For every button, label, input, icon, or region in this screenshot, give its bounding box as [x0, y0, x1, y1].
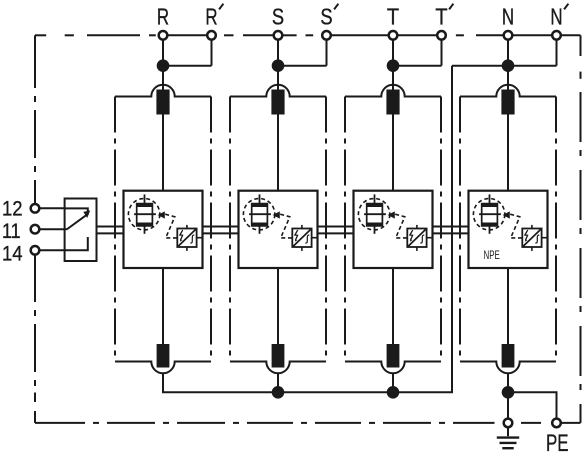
node T — [387, 59, 400, 72]
wire N terminal drop — [507, 40, 509, 66]
wire S terminal drop — [277, 40, 279, 66]
top thermal disconnector N — [501, 90, 514, 115]
varistor monitoring circle (dashed) module 4 — [473, 199, 504, 230]
label S´ — [320, 4, 338, 30]
varistor top lead module 1 — [144, 194, 146, 203]
wire NPE node to PE terminal — [508, 392, 557, 418]
svg-text:S: S — [272, 4, 284, 30]
module 3 housing left side (dash-dot) — [344, 97, 346, 362]
node common bus / module 2 — [272, 386, 285, 399]
integral mark module 4 — [535, 235, 539, 243]
indicator box bottom pin module 3 — [416, 247, 418, 251]
wire S´ to node S — [283, 65, 327, 67]
varistor top lead module 2 — [259, 194, 261, 203]
wire T´ to node T — [398, 65, 442, 67]
mechanical link (dashed) module 2 — [280, 214, 292, 238]
indicator box top pin module 1 — [186, 225, 188, 229]
varistor body module 4 — [482, 204, 498, 226]
label T´ — [435, 4, 453, 30]
indicator box top pin module 4 — [531, 225, 533, 229]
module 3 housing top rail — [345, 85, 441, 97]
module 2 housing bottom rail — [230, 362, 326, 374]
integral mark module 3 — [420, 235, 424, 243]
disconnector indicator box module 4 — [522, 229, 541, 248]
varistor bottom lead module 2 — [259, 226, 261, 234]
wire top disconnector to module box 3 — [392, 115, 394, 191]
wire N´ to node N — [513, 65, 557, 67]
indicator box right pin module 1 — [197, 237, 203, 239]
signal bus upper line — [97, 226, 469, 228]
wire R´ to node R — [168, 65, 212, 67]
wire terminal 12 to contact box — [39, 207, 64, 209]
contact 14 (NO) — [65, 237, 88, 250]
label N´ — [550, 4, 568, 30]
thermal trip arrow module 2 — [273, 211, 280, 218]
svg-text:R: R — [205, 4, 217, 30]
module 1 housing bottom rail — [115, 362, 211, 374]
module 2 housing top rail — [230, 85, 326, 97]
mechanical link (dashed) module 1 — [165, 214, 177, 238]
disconnector indicator box module 1 — [177, 229, 196, 248]
varistor mid line module 3 — [364, 213, 386, 215]
wire module 2 to common bus — [277, 373, 279, 392]
enclosure top border (dash-dot) y=35 — [35, 34, 581, 36]
svg-text:N: N — [502, 4, 514, 30]
disconnector indicator box module 2 — [292, 229, 311, 248]
svg-text:NPE: NPE — [484, 250, 501, 262]
terminal T´ — [437, 31, 446, 40]
node S — [272, 59, 285, 72]
module 4 housing right side (dash-dot) — [555, 97, 557, 362]
wire top disconnector to module box 2 — [277, 115, 279, 191]
indicator box right pin module 4 — [542, 237, 548, 239]
module 1 housing top rail — [115, 85, 211, 97]
module box 4 — [469, 191, 548, 268]
wire R´ terminal drop — [211, 40, 213, 66]
enclosure bottom border (dash-dot) y=422.9 — [35, 422, 581, 424]
enclosure right border (dash-dot) x=580.5 — [580, 35, 582, 423]
varistor monitoring circle (dashed) module 2 — [243, 199, 274, 230]
varistor body module 2 — [252, 204, 268, 226]
ground symbol — [497, 427, 519, 448]
thermal trip arrow module 4 — [503, 211, 510, 218]
wire module box 1 to bottom disconnector — [162, 268, 164, 345]
wire module box 4 to bottom disconnector — [507, 268, 509, 345]
wire node R to top disconnector — [162, 66, 164, 91]
module box 1 — [124, 191, 203, 268]
svg-text:T: T — [435, 4, 447, 30]
wire module box 3 to bottom disconnector — [392, 268, 394, 345]
mechanical link (dashed) module 4 — [510, 214, 522, 238]
wire top disconnector to module box 1 — [162, 115, 164, 191]
varistor mid line module 2 — [249, 213, 271, 215]
wire node T to top disconnector — [392, 66, 394, 91]
varistor body module 3 — [367, 204, 383, 226]
varistor monitoring circle (dashed) module 3 — [358, 199, 389, 230]
terminal 12 — [31, 204, 40, 213]
varistor bottom lead module 3 — [374, 226, 376, 234]
bottom thermal disconnector S — [272, 344, 285, 368]
svg-text:R: R — [157, 4, 169, 30]
node N — [502, 59, 515, 72]
varistor bottom lead module 1 — [144, 226, 146, 234]
varistor monitoring circle (dashed) module 1 — [128, 199, 159, 230]
module box 3 — [354, 191, 433, 268]
integral mark module 2 — [305, 235, 309, 243]
top thermal disconnector S — [271, 90, 284, 115]
module 2 housing right side (dash-dot) — [325, 97, 327, 362]
svg-text:S: S — [320, 4, 332, 30]
module 2 housing left side (dash-dot) — [229, 97, 231, 362]
wire T´ terminal drop — [441, 40, 443, 66]
svg-text:14: 14 — [2, 243, 23, 266]
varistor body module 1 — [137, 204, 153, 226]
wire T terminal drop — [392, 40, 394, 66]
wire module 3 to common bus — [392, 373, 394, 392]
disconnector indicator box module 3 — [407, 229, 426, 248]
wire node S to top disconnector — [277, 66, 279, 91]
switch lever (common 11) — [65, 210, 91, 229]
node NPE output — [502, 386, 515, 399]
wire S´ terminal drop — [326, 40, 328, 66]
earth terminal circle — [504, 419, 513, 428]
wire R terminal drop — [162, 40, 164, 66]
module 3 housing bottom rail — [345, 362, 441, 374]
svg-text:PE: PE — [546, 431, 569, 457]
indicator box right pin module 3 — [427, 237, 433, 239]
module 1 housing left side (dash-dot) — [114, 97, 116, 362]
varistor bottom lead module 4 — [489, 226, 491, 234]
flash symbol module 3 — [410, 230, 413, 242]
terminal S — [274, 31, 283, 40]
mechanical link (dashed) module 3 — [395, 214, 407, 238]
terminal N´ — [552, 31, 561, 40]
terminal 11 — [31, 225, 40, 234]
module 3 housing right side (dash-dot) — [440, 97, 442, 362]
thermal trip arrow module 3 — [388, 211, 395, 218]
svg-text:12: 12 — [2, 197, 23, 220]
indicator box top pin module 2 — [301, 225, 303, 229]
terminal T — [389, 31, 398, 40]
terminal R — [159, 31, 168, 40]
flash symbol module 4 — [525, 230, 528, 242]
indicator box bottom pin module 1 — [186, 247, 188, 251]
bottom thermal disconnector N — [502, 344, 515, 368]
signal bus lower line — [97, 232, 469, 234]
terminal R´ — [207, 31, 216, 40]
node common bus / module 3 — [387, 386, 400, 399]
module 4 housing bottom rail — [460, 362, 556, 374]
module 1 housing right side (dash-dot) — [210, 97, 212, 362]
terminal PE — [552, 419, 561, 428]
contact 12 (NC) — [65, 208, 88, 214]
wire terminal 14 to contact box — [39, 249, 64, 251]
flash symbol module 1 — [180, 230, 183, 242]
wire common bus (modules 1-3 to node N) — [163, 66, 452, 393]
indicator box right pin module 2 — [312, 237, 318, 239]
wire N´ terminal drop — [556, 40, 558, 66]
varistor mid line module 4 — [479, 213, 501, 215]
indicator box bottom pin module 2 — [301, 247, 303, 251]
integral mark module 1 — [190, 235, 194, 243]
bottom thermal disconnector T — [387, 344, 400, 368]
flash symbol module 2 — [295, 230, 298, 242]
top thermal disconnector R — [156, 90, 169, 115]
module 4 housing left side (dash-dot) — [459, 97, 461, 362]
module box 2 — [239, 191, 318, 268]
wire node N to top disconnector — [507, 66, 509, 91]
svg-text:N: N — [550, 4, 562, 30]
thermal trip arrow module 1 — [158, 211, 165, 218]
wire NPE module to earth terminal — [507, 373, 509, 418]
terminal N — [504, 31, 513, 40]
module 4 housing top rail — [460, 85, 556, 97]
indicator box top pin module 3 — [416, 225, 418, 229]
wire node N to PE-bus riser — [452, 65, 503, 67]
terminal 14 — [31, 246, 40, 255]
svg-text:11: 11 — [2, 220, 21, 243]
node R — [157, 59, 170, 72]
top thermal disconnector T — [386, 90, 399, 115]
svg-text:T: T — [387, 4, 399, 30]
varistor top lead module 3 — [374, 194, 376, 203]
varistor top lead module 4 — [489, 194, 491, 203]
varistor mid line module 1 — [134, 213, 156, 215]
terminal S´ — [322, 31, 331, 40]
label R´ — [205, 4, 223, 30]
bottom thermal disconnector R — [157, 344, 170, 368]
wire top disconnector to module box 4 — [507, 115, 509, 191]
remote signalling contact box — [65, 199, 97, 262]
wire module box 2 to bottom disconnector — [277, 268, 279, 345]
enclosure left border (dash-dot) x=35 — [34, 35, 36, 423]
indicator box bottom pin module 4 — [531, 247, 533, 251]
wire terminal 11 to contact box — [39, 228, 64, 230]
